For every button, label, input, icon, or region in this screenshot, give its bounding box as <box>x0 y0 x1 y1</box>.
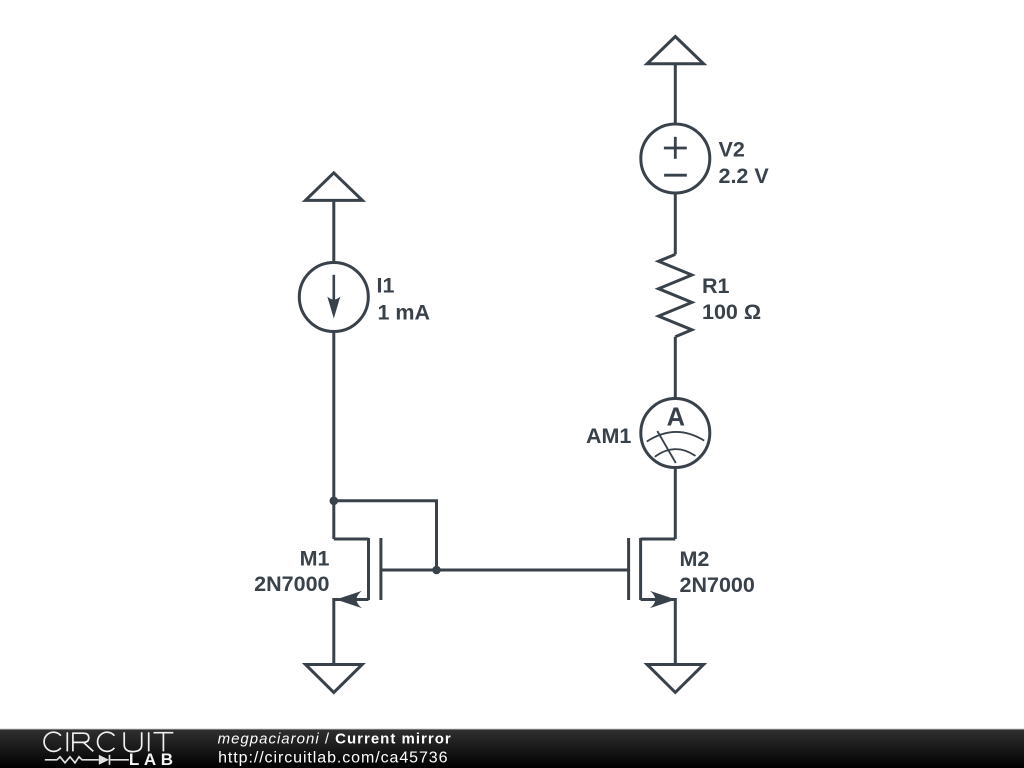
svg-text:M1: M1 <box>300 546 330 570</box>
svg-text:1 mA: 1 mA <box>378 301 431 325</box>
svg-text:2N7000: 2N7000 <box>680 573 755 597</box>
svg-text:megpaciaroni / Current mirror: megpaciaroni / Current mirror <box>218 731 452 748</box>
svg-text:2N7000: 2N7000 <box>254 572 329 596</box>
svg-text:100 Ω: 100 Ω <box>702 300 761 324</box>
svg-text:LAB: LAB <box>129 750 178 768</box>
svg-text:M2: M2 <box>680 547 710 571</box>
svg-text:R1: R1 <box>702 274 730 298</box>
svg-text:http://circuitlab.com/ca45736: http://circuitlab.com/ca45736 <box>218 749 448 766</box>
svg-text:AM1: AM1 <box>586 424 631 448</box>
svg-text:I1: I1 <box>377 274 395 298</box>
svg-text:2.2 V: 2.2 V <box>719 164 770 188</box>
svg-text:V2: V2 <box>719 137 745 161</box>
svg-text:A: A <box>667 404 685 432</box>
